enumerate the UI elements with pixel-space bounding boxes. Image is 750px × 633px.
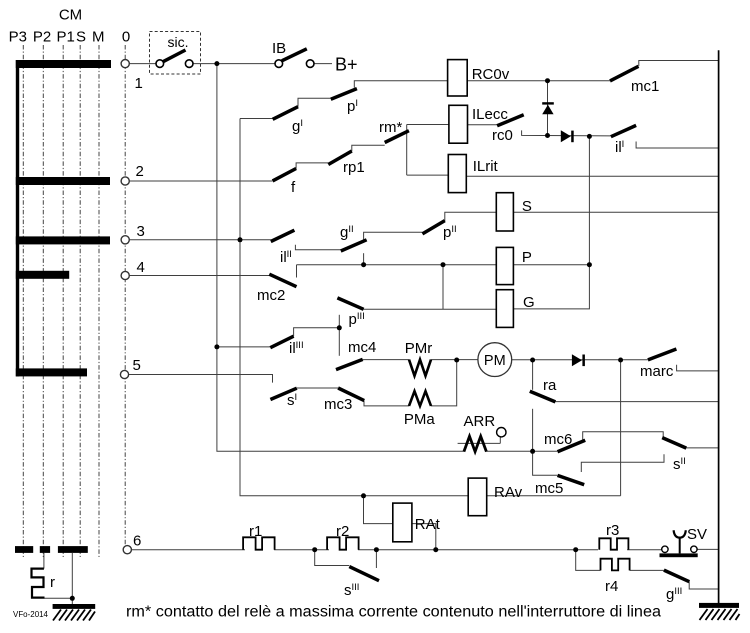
node circle 6 bbox=[123, 546, 131, 554]
wire vertical line B from gI elbow to RAv row bbox=[240, 119, 468, 496]
IB contact blade bbox=[282, 49, 307, 61]
svg-text:RC0v: RC0v bbox=[472, 66, 510, 83]
junction dot row6 r4 branch bbox=[573, 547, 578, 552]
svg-text:mc2: mc2 bbox=[257, 287, 285, 304]
junction dot row6 r2 right bbox=[374, 547, 379, 552]
wire pII to S coil bbox=[445, 212, 497, 221]
resistor PMr zigzag bbox=[409, 360, 431, 376]
relay coil ILrit bbox=[448, 155, 466, 193]
cam controller column dashed line M bbox=[98, 45, 100, 557]
svg-text:rm* contatto del relè a massim: rm* contatto del relè a massima corrente… bbox=[126, 604, 661, 621]
wire from bar c down to ground bbox=[71, 553, 73, 604]
wire branch RC0v junction down through diode bbox=[547, 81, 549, 136]
svg-text:P1: P1 bbox=[57, 28, 75, 45]
cam drum spine (thick vertical) bbox=[16, 60, 19, 376]
contact mc3 blade bbox=[338, 388, 364, 401]
junction dot ARR / mc6 / mc5 bbox=[530, 449, 535, 454]
wire mc1 to right bus bbox=[639, 61, 719, 67]
junction dot RC0v / diode branch bbox=[545, 78, 550, 83]
svg-text:ra: ra bbox=[543, 377, 557, 394]
wire pIII to G coil bbox=[364, 308, 497, 310]
wire PMa up to PMr junction bbox=[431, 360, 457, 406]
right bus (positive rail) bbox=[718, 50, 720, 603]
relay coil G bbox=[496, 290, 513, 328]
wire ARR node to mc6 bbox=[533, 450, 558, 452]
svg-text:rp1: rp1 bbox=[343, 159, 365, 176]
junction dot mc2 row / P-G connector bbox=[441, 262, 446, 267]
motor PM circle bbox=[478, 343, 512, 377]
wire sIII bypass left bbox=[315, 550, 350, 566]
contact pII blade bbox=[422, 221, 444, 234]
wire SV to right bus bbox=[697, 548, 719, 550]
contact pIII blade bbox=[337, 298, 363, 309]
wire row4 node to mc2 bbox=[129, 275, 269, 277]
contact ilII blade bbox=[271, 230, 295, 241]
wire connector between P and G rows bbox=[442, 265, 444, 310]
svg-text:VFo-2014: VFo-2014 bbox=[13, 609, 48, 619]
wire mc4 to PMr bbox=[363, 359, 409, 361]
wire r2 to r3 bbox=[358, 549, 598, 551]
contact mc2 blade bbox=[269, 274, 296, 287]
wire ra to right bus bbox=[555, 401, 719, 403]
wire line B to contact gI bbox=[240, 118, 273, 120]
cam bar notch 5 bbox=[16, 368, 87, 376]
wire junction down to ra bbox=[532, 360, 534, 390]
ground (right) bar bbox=[699, 603, 739, 608]
resistor r2 meander bbox=[327, 537, 359, 549]
wire gII to pII bbox=[364, 232, 423, 240]
wire r1 to r2 bbox=[274, 549, 329, 551]
svg-text:RAt: RAt bbox=[415, 516, 441, 533]
svg-text:mc4: mc4 bbox=[348, 339, 376, 356]
wire sic to IB bbox=[193, 63, 275, 65]
svg-text:RAv: RAv bbox=[494, 484, 523, 501]
svg-text:r: r bbox=[50, 574, 55, 591]
contact mc5 blade bbox=[558, 475, 585, 484]
junction dot rc0 diode row / vertical bbox=[587, 134, 592, 139]
diode D1 vertical (RC0v branch) cathode bar bbox=[542, 102, 554, 104]
junction dot mc2 row / gII tick bbox=[361, 262, 366, 267]
wire vertical from diode junction down to P row and G corner bbox=[513, 136, 589, 309]
junction dot PM / ra bbox=[530, 358, 535, 363]
sic contact right circle bbox=[185, 60, 193, 68]
svg-text:0: 0 bbox=[122, 28, 130, 45]
wire RC0v coil to mc1 bbox=[467, 80, 610, 82]
svg-text:mc1: mc1 bbox=[631, 78, 659, 95]
svg-text:mc3: mc3 bbox=[324, 396, 352, 413]
wire row3 node to ilII bbox=[129, 239, 271, 241]
svg-text:M: M bbox=[92, 28, 105, 45]
contact mc1 blade bbox=[610, 66, 639, 81]
SV switch left circle bbox=[662, 546, 668, 552]
ground (left) hatching bbox=[53, 610, 95, 621]
wire gII fixed contact tick bbox=[363, 253, 365, 265]
svg-text:IB: IB bbox=[272, 40, 286, 57]
wire f to rp1 bbox=[296, 163, 328, 169]
resistor r meander bbox=[32, 569, 45, 598]
svg-text:PMr: PMr bbox=[405, 340, 433, 357]
cam controller column dashed line P2 bbox=[42, 45, 44, 557]
wire junction up to pIII contact bbox=[338, 315, 340, 328]
wire r3 to SV bbox=[627, 549, 662, 551]
junction dot sic/IB branch bbox=[214, 61, 219, 66]
contact f blade bbox=[273, 169, 297, 181]
svg-text:ILrit: ILrit bbox=[473, 158, 499, 175]
wire ARR wiper line bbox=[458, 442, 501, 444]
wire sIII bypass right bbox=[375, 550, 377, 568]
wire RAv junction down to RAt coil bbox=[364, 496, 393, 524]
junction dot at r / ground wire bbox=[70, 596, 75, 601]
resistor r3 meander bbox=[599, 538, 628, 549]
cam bar notch 4 bbox=[16, 271, 69, 279]
wire row5 node to sI bbox=[129, 375, 273, 383]
relay coil P bbox=[496, 247, 513, 284]
wire junction down to mc4 contact bbox=[338, 328, 340, 356]
svg-text:rm*: rm* bbox=[379, 119, 402, 136]
contact gIII blade bbox=[664, 570, 689, 582]
junction dot diode bottom bbox=[545, 133, 550, 138]
wire to ILecc coil bbox=[407, 124, 449, 126]
wire sI to mc3 bbox=[297, 387, 338, 389]
svg-text:PMa: PMa bbox=[404, 411, 436, 428]
contact marc blade bbox=[648, 349, 677, 360]
node circle 2 bbox=[121, 177, 129, 185]
cam controller column dashed line P3 bbox=[22, 45, 24, 557]
contact rc0 blade bbox=[497, 115, 524, 126]
cam bar row6 segment c bbox=[58, 546, 88, 553]
svg-text:rc0: rc0 bbox=[492, 127, 513, 144]
svg-text:sic.: sic. bbox=[168, 34, 189, 50]
contact sI blade bbox=[270, 388, 296, 399]
contact ilIII blade bbox=[270, 336, 293, 348]
svg-text:ARR: ARR bbox=[464, 413, 496, 430]
svg-text:1: 1 bbox=[135, 75, 143, 92]
junction dot P row / vertical bbox=[587, 262, 592, 267]
svg-text:G: G bbox=[523, 294, 535, 311]
wire ilII to gII bbox=[295, 245, 340, 250]
wire vertical from marc junction down to RAv row bbox=[620, 360, 622, 496]
junction dot row6 r1/r2 bbox=[312, 547, 317, 552]
cam bar notch 3 bbox=[16, 236, 110, 244]
node circle 5 bbox=[120, 370, 128, 378]
diode D2 horizontal (rc0 row) triangle bbox=[561, 130, 571, 142]
wire to ILrit coil bbox=[407, 174, 449, 176]
wire from bar b down to resistor r bbox=[43, 553, 45, 569]
sic contact left circle bbox=[156, 60, 164, 68]
svg-text:r2: r2 bbox=[336, 523, 349, 540]
svg-text:5: 5 bbox=[133, 357, 141, 374]
junction dot RAv / RAt bbox=[361, 493, 366, 498]
relay coil RAt bbox=[393, 503, 412, 542]
cam controller column dashed line P1 bbox=[62, 45, 64, 557]
svg-text:S: S bbox=[522, 198, 532, 215]
svg-text:CM: CM bbox=[59, 7, 82, 24]
contact mc6 blade bbox=[558, 440, 586, 451]
resistor PMa zigzag bbox=[409, 391, 431, 406]
svg-text:r4: r4 bbox=[605, 578, 618, 595]
diode D3 (PM row) triangle bbox=[572, 354, 582, 366]
svg-text:S: S bbox=[76, 28, 86, 45]
wire mc5 to sII fixed side bbox=[581, 454, 664, 472]
node circle 4 bbox=[121, 271, 129, 279]
wire IB to B+ bbox=[314, 63, 332, 65]
wire gI to pI bbox=[298, 98, 331, 106]
svg-text:3: 3 bbox=[137, 223, 145, 240]
node circle 3 bbox=[121, 236, 129, 244]
wire below ra segment down to ARR node bbox=[532, 409, 534, 452]
contact rp1 blade bbox=[328, 151, 352, 165]
wire rp1 to rm* bbox=[352, 145, 385, 151]
svg-text:mc6: mc6 bbox=[544, 431, 572, 448]
contact gII blade bbox=[341, 240, 367, 251]
wire RAv to vertical under diode junction bbox=[487, 495, 621, 497]
wire row6 node to r1 bbox=[131, 549, 245, 551]
wire S coil to right bus bbox=[513, 211, 718, 213]
wire r4 to gIII bbox=[630, 569, 664, 571]
IB contact left circle bbox=[275, 60, 283, 68]
svg-text:marc: marc bbox=[640, 363, 674, 380]
junction dot row6 RAt bbox=[433, 547, 438, 552]
notch column dashed line 0 bbox=[124, 45, 126, 546]
wire row2 node to contact f bbox=[129, 180, 273, 182]
wire r4 branch from row6 bbox=[576, 550, 601, 571]
cam bar row6 segment b bbox=[40, 546, 50, 553]
wire rm* vertical feed to ILecc and ILrit bbox=[406, 125, 408, 176]
svg-text:P: P bbox=[522, 249, 532, 266]
relay coil RAv bbox=[468, 478, 487, 516]
wire ILrit coil to right bus bbox=[466, 175, 718, 177]
junction dot row3 / line B bbox=[238, 237, 243, 242]
wire mc6 to sII bbox=[583, 432, 664, 440]
cam bar notch 2 bbox=[16, 177, 110, 185]
diode D2 cathode bar bbox=[571, 131, 574, 143]
wire ARR node down to mc5 bbox=[533, 451, 558, 475]
junction dot marc / RAv vertical bbox=[618, 358, 623, 363]
sic contact blade bbox=[163, 50, 186, 62]
wire mc2 row to P coil bbox=[297, 264, 497, 266]
junction dot ilIII / pIII / mc4 bbox=[337, 325, 342, 330]
resistor r4 meander bbox=[601, 559, 630, 571]
wire mc2 fixed contact tick bbox=[296, 265, 298, 278]
contact sIII blade bbox=[349, 567, 379, 581]
wire from resistor r to ground node bbox=[45, 597, 73, 599]
relay coil RC0v bbox=[448, 60, 468, 96]
wire sII to right bus bbox=[686, 447, 719, 449]
relay coil S bbox=[496, 193, 513, 231]
sic. dashed enclosure bbox=[150, 32, 201, 75]
resistor r1 meander bbox=[243, 537, 275, 549]
wire ARR wiper hook to circle bbox=[499, 437, 501, 443]
wire ilI to right bus bbox=[636, 142, 719, 149]
contact gI blade bbox=[273, 107, 298, 120]
contact ilI blade bbox=[611, 125, 636, 136]
relay coil ILecc bbox=[449, 105, 468, 143]
contact sII blade bbox=[662, 438, 686, 449]
svg-text:ILecc: ILecc bbox=[472, 106, 508, 123]
wire mc3 elbow to PMa bbox=[364, 401, 409, 406]
wire ILecc coil to rc0 bbox=[468, 124, 498, 126]
wire marc to right bus bbox=[677, 365, 719, 371]
ground (left) bar bbox=[53, 604, 96, 609]
contact mc4 blade bbox=[336, 359, 363, 369]
svg-text:r1: r1 bbox=[249, 523, 262, 540]
wire ilIII to junction bbox=[294, 328, 340, 337]
diode D1 triangle bbox=[542, 105, 553, 115]
junction dot PMr / PMa bbox=[454, 358, 459, 363]
wire line A to ilIII bbox=[217, 346, 270, 348]
svg-text:PM: PM bbox=[484, 353, 506, 369]
SV switch right circle bbox=[691, 546, 697, 552]
wire RAt coil to row6 bbox=[412, 524, 436, 550]
svg-text:4: 4 bbox=[137, 259, 145, 276]
ARR wiper terminal circle bbox=[497, 428, 506, 437]
wire gIII to right bus bbox=[689, 582, 718, 590]
wire rc0 to diode row bbox=[522, 130, 611, 136]
node circle 1 bbox=[121, 60, 129, 68]
wire PM motor to marc bbox=[512, 359, 648, 361]
cam bar row6 segment a bbox=[15, 546, 33, 553]
svg-text:mc5: mc5 bbox=[535, 480, 563, 497]
svg-text:6: 6 bbox=[133, 533, 141, 550]
SV switch stem bbox=[679, 538, 681, 553]
IB contact right circle bbox=[306, 60, 314, 68]
contact pI blade bbox=[331, 89, 357, 100]
SV switch cup handle bbox=[674, 530, 686, 537]
cam bar notch 1 bbox=[16, 60, 111, 68]
svg-text:r3: r3 bbox=[606, 522, 619, 539]
ground (right) hatching bbox=[700, 609, 740, 620]
wire vertical line A from junction to ARR row bbox=[217, 64, 464, 452]
svg-text:P2: P2 bbox=[33, 28, 51, 45]
junction dot line A / ilIII row bbox=[214, 344, 219, 349]
svg-text:SV: SV bbox=[687, 526, 707, 543]
wire pI elbow to RC0v coil bbox=[354, 81, 447, 88]
diode D3 cathode bar bbox=[582, 355, 585, 367]
SV switch base bar bbox=[660, 553, 698, 557]
contact rm* blade bbox=[385, 131, 409, 143]
svg-text:2: 2 bbox=[136, 163, 144, 180]
cam controller column dashed line S bbox=[79, 45, 81, 557]
wire ARR row continues to mc6 node bbox=[486, 450, 532, 452]
svg-text:P3: P3 bbox=[9, 28, 27, 45]
contact ra blade bbox=[530, 391, 556, 402]
resistor ARR zigzag bbox=[464, 436, 487, 451]
svg-text:B+: B+ bbox=[335, 55, 358, 75]
wire node1 to sic bbox=[129, 63, 156, 65]
wire P coil to vertical bbox=[513, 264, 589, 266]
wire PMr to PM motor bbox=[431, 359, 478, 361]
